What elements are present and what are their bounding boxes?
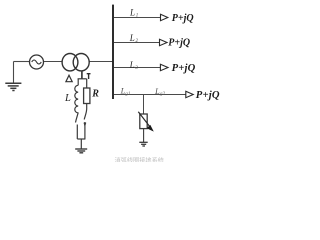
svg-text:消弧线圈接地系统: 消弧线圈接地系统 xyxy=(115,156,165,162)
svg-text:L: L xyxy=(129,33,135,43)
svg-text:P+jQ: P+jQ xyxy=(196,90,220,101)
svg-text:L: L xyxy=(64,93,71,104)
svg-text:P+jQ: P+jQ xyxy=(172,63,196,74)
svg-text:g2: g2 xyxy=(160,91,166,97)
svg-text:R: R xyxy=(91,88,99,99)
svg-text:P+jQ: P+jQ xyxy=(168,37,190,48)
svg-text:L: L xyxy=(129,60,135,70)
svg-text:1: 1 xyxy=(136,14,139,19)
svg-text:g1: g1 xyxy=(125,91,131,97)
svg-text:L: L xyxy=(129,8,135,18)
svg-text:P+jQ: P+jQ xyxy=(172,13,194,24)
